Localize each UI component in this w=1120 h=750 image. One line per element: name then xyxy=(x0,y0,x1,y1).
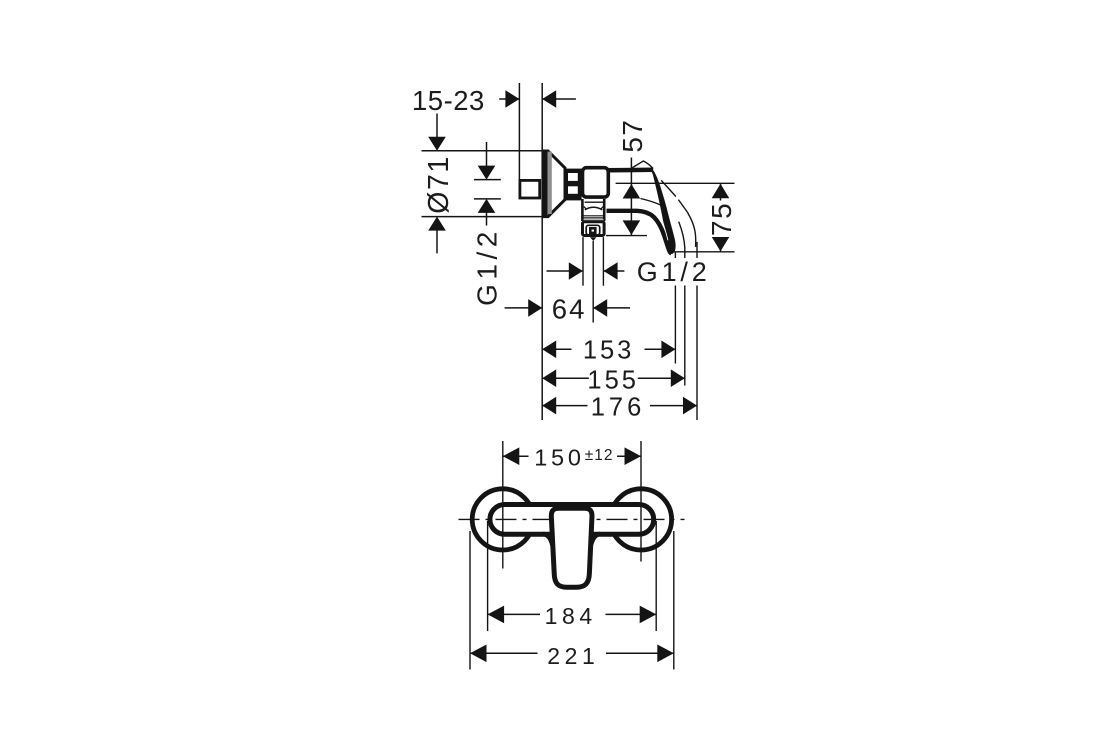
extension line left of wall xyxy=(518,83,520,180)
dimension 176 xyxy=(542,394,697,422)
label 57 rotated xyxy=(617,119,648,153)
dimension 15-23 xyxy=(412,85,576,116)
right wall flange circle xyxy=(610,489,671,550)
wall fitting square xyxy=(520,180,540,198)
lower housing sides xyxy=(582,199,604,221)
escutcheon cone xyxy=(542,150,565,217)
svg-text:184: 184 xyxy=(545,603,597,629)
body bottom edge and handle underside curve xyxy=(607,211,672,253)
svg-text:64: 64 xyxy=(552,293,587,324)
reference line top (57/75) xyxy=(616,182,735,184)
label 75 rotated xyxy=(706,202,737,236)
vertical centerline right xyxy=(640,441,642,562)
svg-text:75: 75 xyxy=(706,202,737,236)
svg-text:15-23: 15-23 xyxy=(412,85,485,116)
pipe centerline xyxy=(592,241,594,323)
label G1/2 left rotated xyxy=(471,227,502,306)
svg-text:221: 221 xyxy=(547,643,599,669)
dimension G1/2 wall thread xyxy=(474,142,501,226)
svg-text:G1/2: G1/2 xyxy=(637,257,711,287)
threaded nipple xyxy=(564,169,581,201)
dimension 153 xyxy=(542,337,675,365)
dimension O71 bottom line xyxy=(422,217,543,254)
union nut xyxy=(583,222,605,236)
handle back edge thin detail xyxy=(641,180,696,247)
handle fillet right xyxy=(591,534,601,546)
body and handle silhouette xyxy=(606,167,677,254)
valve cartridge cylinder xyxy=(583,168,609,197)
svg-text:150: 150 xyxy=(534,445,585,471)
lower housing dome xyxy=(584,206,604,209)
svg-text:176: 176 xyxy=(591,394,646,422)
grip band white sliver xyxy=(662,219,668,241)
dimension 57 xyxy=(606,158,647,236)
dimension 184 xyxy=(488,521,657,631)
svg-text:±12: ±12 xyxy=(585,447,614,464)
hose pipe lines xyxy=(583,237,603,286)
horizontal centerline dashed xyxy=(459,518,685,520)
vertical centerline left xyxy=(502,441,504,569)
dimension 150 +-12 xyxy=(503,443,641,471)
dimension O71 top line xyxy=(422,114,543,151)
handle tip thin outline xyxy=(632,161,653,168)
svg-text:Ø71: Ø71 xyxy=(423,155,455,213)
svg-text:57: 57 xyxy=(617,119,648,153)
dimension 221 xyxy=(470,531,674,670)
lower housing top ring line xyxy=(585,201,604,203)
svg-text:155: 155 xyxy=(587,366,639,394)
handle fillet left xyxy=(543,534,553,546)
svg-text:G1/2: G1/2 xyxy=(471,227,502,306)
handle lever front edge (thick crescent) xyxy=(650,168,675,254)
left wall flange circle xyxy=(472,489,533,550)
svg-text:153: 153 xyxy=(583,337,635,365)
wall line xyxy=(541,83,543,420)
lower housing rings xyxy=(584,216,604,221)
dimension 155 xyxy=(542,366,685,394)
body top edge xyxy=(607,168,654,173)
dimension 75 xyxy=(674,183,735,252)
label G1/2 hose with arrows xyxy=(547,257,712,287)
label O71 rotated xyxy=(423,155,455,213)
outlet tip triangle xyxy=(590,237,597,241)
dimension 64 xyxy=(505,293,630,324)
extension lines right of handle xyxy=(675,242,697,420)
mixer body bar xyxy=(490,505,654,535)
handle front view xyxy=(551,508,592,587)
